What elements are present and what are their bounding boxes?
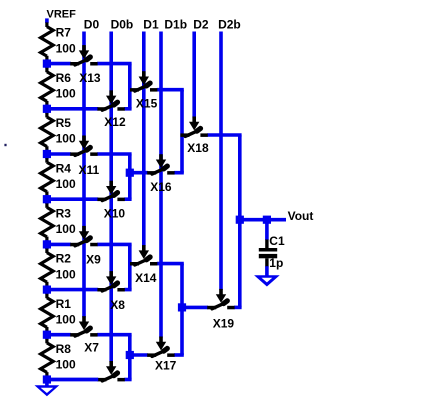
wire X19 out [234,306,242,310]
wire Vout bus tap [240,218,286,222]
node tap1 junction [43,331,51,339]
capacitor C1 [259,240,277,267]
node tap3 junction [43,240,51,248]
artifact dot [4,144,6,146]
wire bus to X19 [182,306,208,310]
wire ground row [47,378,98,382]
svg-text:X12: X12 [104,115,126,129]
svg-text:D2: D2 [193,18,209,32]
wire X11 out to bus [97,152,132,156]
svg-text:R2: R2 [56,252,72,266]
svg-text:X17: X17 [155,359,177,373]
svg-text:R7: R7 [56,26,72,40]
switch X14 [130,245,157,265]
node tap6 junction [43,105,51,113]
wire Vout to C1 [265,220,269,240]
svg-text:X9: X9 [86,253,101,267]
node ground junction [43,375,51,383]
wire ground stub [45,380,49,386]
svg-text:D0b: D0b [111,18,134,32]
wire X8 out to bus [124,288,131,292]
wire D1 column [142,32,146,247]
node X16 feed junction [126,169,134,177]
node Vout junction 1 [236,216,244,224]
svg-text:D1: D1 [143,18,159,32]
wire bus X18/X19 out [238,135,242,307]
wire bus X7/X6 out [128,335,132,380]
resistor R1 [41,290,54,335]
wire D2 column [192,32,196,118]
wire X7 out to bus [97,333,132,337]
switch X17 [147,337,174,357]
svg-text:R4: R4 [56,161,72,175]
wire tap to X12 [47,107,98,111]
svg-text:X16: X16 [150,180,172,194]
wire X14 out [157,262,184,266]
switch X13 [70,45,97,65]
switch X16 [147,154,174,174]
svg-text:D2b: D2b [218,18,241,32]
svg-text:100: 100 [56,267,76,281]
wire X10 out to bus [124,197,131,201]
ground at C1 [254,275,280,286]
resistor R3 [41,199,54,244]
wire bus to X17 [130,353,148,357]
switch X11 [70,136,97,156]
svg-text:VREF: VREF [47,9,77,21]
svg-text:X18: X18 [187,141,209,155]
wire tap to X9 [47,243,71,247]
wire tap to X7 [47,333,71,337]
wire X6 out to bus [124,378,131,382]
svg-text:100: 100 [56,222,76,236]
resistor R4 [41,154,54,199]
svg-text:X8: X8 [110,298,125,312]
wire bus X9/X8 out [128,244,132,289]
svg-text:X13: X13 [79,71,101,85]
switch X8 [97,271,124,291]
svg-text:X19: X19 [213,317,235,331]
wire X16 out [174,171,184,175]
svg-text:100: 100 [56,132,76,146]
resistor R8 [41,335,54,380]
wire bus X15/X16 out [180,90,184,173]
wire X9 out to bus [97,243,132,247]
switch X15 [130,71,157,91]
wire bus X13/X12 out [128,64,132,109]
svg-text:R3: R3 [56,207,72,221]
svg-text:100: 100 [56,87,76,101]
wire tap to X8 [47,288,98,292]
switch X12 [97,90,124,110]
node tap4 junction [43,195,51,203]
svg-text:1p: 1p [269,256,283,270]
resistor R2 [41,244,54,289]
svg-text:X10: X10 [104,206,126,220]
svg-text:D1b: D1b [164,18,187,32]
node tap2 junction [43,286,51,294]
node Vout junction 2 [263,216,271,224]
wire bus to X16 [130,171,148,175]
svg-text:R1: R1 [56,297,72,311]
ground at resistor string [35,385,60,396]
switch X19 [207,289,234,309]
svg-text:X11: X11 [79,163,100,177]
svg-text:R8: R8 [56,342,72,356]
svg-text:100: 100 [56,177,76,191]
wire tap to X6 [47,378,98,382]
svg-text:X7: X7 [84,341,99,355]
wire D2b column [219,32,223,290]
wire X12 out to bus [124,107,131,111]
svg-text:X14: X14 [135,271,157,285]
switch X18 [180,117,207,137]
wire D0 column [82,32,86,318]
svg-text:D0: D0 [84,18,100,32]
svg-text:X15: X15 [136,96,158,110]
node X19 feed junction [178,303,186,311]
svg-text:100: 100 [56,358,76,372]
wire X13 out to bus [97,62,132,66]
switch X9 [70,226,97,246]
resistor R7 [41,18,54,63]
switch X10 [97,181,124,201]
switch X7 [70,316,97,336]
svg-text:100: 100 [56,313,76,327]
wire tap to X10 [47,197,98,201]
svg-text:R5: R5 [56,116,72,130]
wire D1b column [159,32,163,338]
wire X15 out [157,88,184,92]
wire bus X14/X17 out [180,264,184,355]
wire tap to X13 [47,62,71,66]
wire bus X11/X10 out [128,154,132,199]
svg-text:Vout: Vout [288,209,314,223]
wire X18 out [207,133,241,137]
node tap7 junction [43,60,51,68]
node tap5 junction [43,150,51,158]
wire tap to X11 [47,152,71,156]
node X17 feed junction [126,351,134,359]
svg-text:R6: R6 [56,71,72,85]
wire X17 out [174,353,184,357]
wire D0b column [109,32,113,363]
resistor R5 [41,109,54,154]
svg-text:100: 100 [56,41,76,55]
wire C1 to ground [265,266,269,276]
svg-text:C1: C1 [269,234,285,248]
switch X6 [97,361,124,381]
resistor R6 [41,64,54,109]
